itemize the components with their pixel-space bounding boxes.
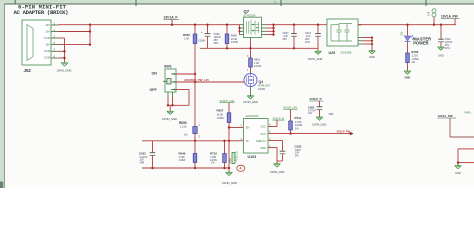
svg-text:GND: GND bbox=[260, 146, 266, 150]
svg-text:3V3LP_LR1: 3V3LP_LR1 bbox=[220, 99, 236, 103]
svg-text:ON: ON bbox=[152, 72, 158, 76]
svg-text:R657: R657 bbox=[217, 109, 224, 113]
svg-text:19V1A_PW: 19V1A_PW bbox=[438, 114, 453, 118]
svg-text:MASTER_PW_L15: MASTER_PW_L15 bbox=[185, 78, 210, 82]
svg-text:J78: J78 bbox=[427, 11, 431, 16]
svg-text:PCM_101: PCM_101 bbox=[236, 150, 239, 161]
svg-text:19VIN_GND: 19VIN_GND bbox=[312, 123, 327, 127]
svg-text:COM: COM bbox=[44, 49, 51, 53]
svg-text:3V3LP_P: 3V3LP_P bbox=[310, 97, 322, 101]
svg-text:X5R: X5R bbox=[329, 113, 334, 116]
svg-text:D25: D25 bbox=[400, 31, 403, 36]
svg-text:19V1A_P: 19V1A_P bbox=[164, 15, 179, 19]
svg-text:1.5K: 1.5K bbox=[184, 37, 189, 40]
svg-text:1/16W: 1/16W bbox=[254, 65, 262, 68]
svg-text:19VIN_GND: 19VIN_GND bbox=[162, 117, 177, 121]
svg-text:R711: R711 bbox=[295, 116, 302, 120]
svg-text:10V: 10V bbox=[308, 112, 313, 115]
svg-text:19VIN_GND: 19VIN_GND bbox=[243, 100, 258, 104]
svg-text:3V3LP_B: 3V3LP_B bbox=[273, 116, 285, 120]
svg-text:19VIN_GND: 19VIN_GND bbox=[222, 181, 237, 185]
svg-text:GND: GND bbox=[405, 75, 411, 79]
svg-text:19VIN_GND: 19VIN_GND bbox=[308, 57, 323, 61]
svg-text:25V: 25V bbox=[283, 38, 288, 41]
svg-text:IN: IN bbox=[246, 139, 249, 143]
svg-text:R660: R660 bbox=[183, 33, 190, 37]
svg-text:1/16W: 1/16W bbox=[179, 159, 187, 162]
svg-text:CDELAY: CDELAY bbox=[256, 139, 266, 143]
svg-text:OFF: OFF bbox=[150, 88, 158, 92]
svg-text:POWER: POWER bbox=[413, 41, 429, 46]
svg-text:+: + bbox=[201, 30, 203, 34]
svg-text:GND: GND bbox=[438, 54, 444, 58]
svg-text:R649: R649 bbox=[179, 152, 186, 156]
svg-text:X5R: X5R bbox=[140, 161, 145, 164]
svg-text:U25: U25 bbox=[329, 51, 336, 55]
svg-text:19V: 19V bbox=[45, 43, 50, 47]
svg-text:10%: 10% bbox=[305, 41, 311, 44]
svg-text:SW1: SW1 bbox=[164, 65, 172, 69]
svg-text:AC ADAPTER (BRICK): AC ADAPTER (BRICK) bbox=[14, 9, 69, 16]
svg-text:1/16W: 1/16W bbox=[231, 41, 239, 44]
svg-text:EN: EN bbox=[246, 126, 250, 130]
svg-text:3V3LP_LR1: 3V3LP_LR1 bbox=[283, 105, 298, 109]
svg-text:1/16W: 1/16W bbox=[258, 88, 266, 91]
svg-text:20%: 20% bbox=[445, 47, 451, 50]
svg-text:3V3LP_PW: 3V3LP_PW bbox=[337, 130, 351, 134]
svg-text:19VIN_GND: 19VIN_GND bbox=[57, 68, 72, 72]
svg-text:Q4: Q4 bbox=[259, 80, 264, 84]
svg-text:J52: J52 bbox=[24, 68, 32, 73]
svg-text:19VIN_GND: 19VIN_GND bbox=[270, 170, 285, 174]
svg-text:COM: COM bbox=[44, 56, 51, 60]
svg-text:PWR_: PWR_ bbox=[465, 111, 473, 114]
svg-text:1/16W: 1/16W bbox=[217, 117, 225, 120]
svg-text:OUT: OUT bbox=[261, 132, 267, 136]
svg-text:4: 4 bbox=[240, 167, 242, 171]
svg-text:S1N2008: S1N2008 bbox=[341, 51, 352, 55]
svg-text:GND: GND bbox=[455, 171, 461, 175]
svg-text:1/16W: 1/16W bbox=[198, 40, 206, 43]
svg-text:MAX16910: MAX16910 bbox=[246, 114, 259, 118]
svg-text:R710: R710 bbox=[210, 152, 217, 156]
svg-text:R650: R650 bbox=[179, 121, 187, 125]
svg-text:U103: U103 bbox=[248, 155, 257, 159]
svg-text:20%: 20% bbox=[214, 42, 220, 45]
svg-text:19V: 19V bbox=[45, 23, 50, 27]
svg-text:GND: GND bbox=[369, 55, 375, 59]
svg-text:J153: J153 bbox=[229, 158, 232, 164]
svg-text:19V: 19V bbox=[45, 30, 50, 34]
svg-text:Q7: Q7 bbox=[244, 9, 250, 14]
svg-text:1.21K: 1.21K bbox=[180, 126, 187, 129]
svg-text:COM: COM bbox=[44, 36, 51, 40]
svg-text:VCC: VCC bbox=[261, 125, 267, 129]
svg-text:19V1A_PW: 19V1A_PW bbox=[441, 15, 458, 19]
svg-text:R268: R268 bbox=[411, 50, 418, 54]
